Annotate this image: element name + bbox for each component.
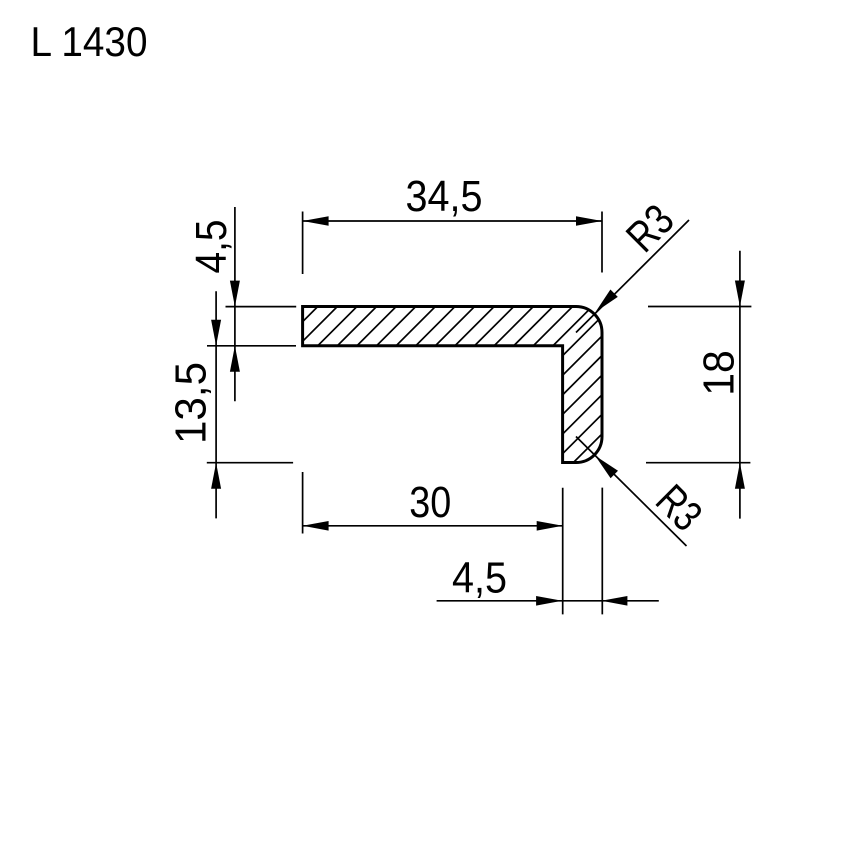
dimension 4,5 bottom arrow left	[536, 596, 562, 606]
svg-text:L 1430: L 1430	[31, 18, 148, 65]
dimension 4,5 top-left arrow upper	[230, 281, 240, 307]
dimension 30 extension line right	[562, 488, 564, 615]
svg-text:4,5: 4,5	[188, 220, 236, 274]
dimension 4,5 bottom line	[437, 600, 659, 602]
dimension 18 extension line upper	[648, 306, 751, 308]
dimension 34,5 line	[303, 220, 602, 222]
radius leader R3 top line	[576, 220, 689, 333]
radius label R3 top	[618, 196, 684, 262]
dimension 13,5 arrow lower	[211, 463, 221, 489]
dimension 34,5 extension line right	[601, 212, 603, 273]
dimension 18 arrow lower	[735, 463, 745, 489]
radius label R3 bottom	[646, 476, 710, 540]
dimension 4,5 top-left extension line lower	[207, 345, 296, 347]
dimension 18 line	[739, 251, 741, 519]
dimension 34,5 arrow left	[303, 216, 329, 226]
title L 1430	[31, 18, 148, 65]
dimension 30 text	[409, 479, 451, 527]
dimension 4,5 top-left line	[234, 207, 236, 401]
svg-text:30: 30	[409, 479, 451, 527]
svg-text:13,5: 13,5	[168, 362, 216, 444]
svg-text:4,5: 4,5	[452, 555, 507, 603]
dimension 18 arrow upper	[735, 281, 745, 307]
dimension 4,5 top-left arrow lower	[230, 346, 240, 372]
dimension 18 text	[696, 350, 744, 396]
dimension 30 arrow left	[303, 521, 329, 531]
dimension 4,5 top-left extension line upper	[226, 306, 297, 308]
dimension 30 extension line left	[302, 472, 304, 534]
dimension 4,5 bottom text	[452, 555, 507, 603]
dimension 13,5 text	[168, 362, 216, 444]
dimension 4,5 top-left text	[188, 220, 236, 274]
dimension 34,5 extension line left	[302, 212, 304, 275]
dimension 13,5 extension line lower	[207, 462, 293, 464]
radius leader R3 top arrow	[596, 290, 618, 313]
svg-text:34,5: 34,5	[406, 173, 483, 221]
dimension 4,5 bottom arrow right	[601, 596, 627, 606]
dimension 13,5 arrow upper	[211, 320, 221, 346]
dimension 34,5 text	[406, 173, 483, 221]
svg-text:18: 18	[696, 350, 744, 396]
profile L-section hatching	[154, 300, 775, 470]
dimension 4,5 bottom extension line right	[601, 488, 603, 615]
dimension 13,5 line	[215, 291, 217, 518]
dimension 18 extension line lower	[646, 462, 750, 464]
radius leader R3 bottom arrow	[595, 456, 618, 479]
profile L-section outline	[303, 307, 602, 463]
dimension 30 arrow right	[537, 521, 563, 531]
dimension 30 line	[303, 525, 563, 527]
dimension 34,5 arrow right	[576, 216, 602, 226]
radius leader R3 bottom line	[576, 437, 687, 547]
